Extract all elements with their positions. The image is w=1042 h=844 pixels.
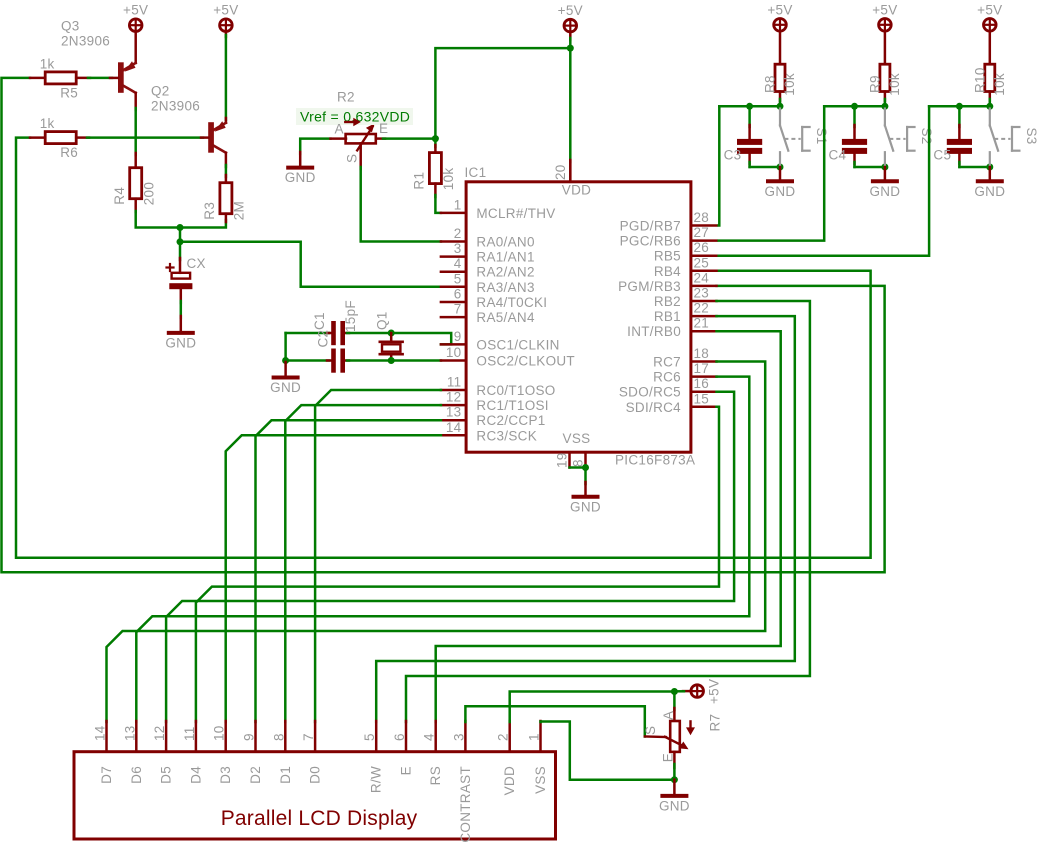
svg-text:10k: 10k (441, 168, 456, 191)
resistor R1 (429, 153, 441, 184)
LCD pin 7 D0 (314, 721, 317, 752)
wire pin22 RB1 to LCD R/W (376, 316, 795, 722)
svg-text:22: 22 (694, 301, 710, 316)
svg-text:4: 4 (454, 256, 462, 271)
capacitor C2 (331, 349, 336, 373)
svg-text:11: 11 (447, 375, 462, 390)
wire C3 bottom to switch bottom (750, 166, 780, 169)
LCD pin 8 D1 (284, 721, 287, 752)
LCD pin 14 D7 (105, 721, 108, 752)
wire net R5-to-pin24 (left edge, bottom bus, right riser) (2, 78, 885, 572)
value label Vref = 0.632VDD (296, 108, 413, 125)
svg-text:CX: CX (187, 256, 206, 271)
+5V supply symbol (774, 19, 787, 32)
wire pin11 RC0/T1OSO to LCD D0 (315, 390, 441, 722)
IC U1 PIC16F873A body (466, 182, 691, 452)
svg-text:D1: D1 (278, 766, 293, 784)
svg-text:+5V: +5V (767, 2, 792, 17)
LCD pin 6 E (405, 721, 408, 752)
svg-text:A: A (661, 711, 676, 720)
wire riser S2 to IC pin 27 (719, 106, 825, 240)
svg-text:RC3/SCK: RC3/SCK (476, 428, 537, 443)
svg-text:R1: R1 (412, 172, 427, 190)
svg-text:GND: GND (270, 380, 301, 395)
capacitor C5 (958, 106, 961, 127)
IC1 pin 20 VDD stub (569, 161, 572, 182)
trimmer R2 (346, 134, 376, 143)
svg-text:27: 27 (694, 225, 710, 240)
IC1 pin 3 RA1/AN1 (441, 255, 466, 258)
node S1 bottom junction (777, 164, 784, 171)
wire pin13 RC2/CCP1 to LCD D2 (256, 420, 441, 722)
svg-text:18: 18 (694, 346, 710, 361)
node C4 top junction (851, 103, 858, 110)
svg-text:RC7: RC7 (653, 355, 681, 370)
wire pin17 RC6 to LCD D6 (136, 377, 749, 722)
svg-text:R8: R8 (763, 75, 778, 93)
switch S1 (779, 109, 781, 126)
node C5 top junction (956, 103, 963, 110)
svg-text:25: 25 (694, 255, 710, 270)
wire R2 wiper S to IC pin 2 RA0/AN0 (361, 167, 441, 242)
svg-text:VDD: VDD (562, 183, 591, 198)
capacitor CX polarized (179, 242, 182, 260)
wire R2 A terminal to ground (300, 139, 330, 154)
svg-text:9: 9 (242, 733, 257, 741)
svg-text:+5V: +5V (977, 2, 1002, 17)
wire R7 bottom to ground junction (673, 752, 676, 768)
wire riser S1 to IC pin 28 (717, 106, 720, 225)
+5V supply symbol (879, 19, 892, 32)
svg-text:OSC1/CLKIN: OSC1/CLKIN (476, 337, 559, 352)
node S3 bottom junction (986, 164, 993, 171)
svg-text:+5V: +5V (123, 3, 148, 18)
wire net R6-to-pin25 (left vertical, bus, right riser) (16, 138, 871, 558)
wire pin15 SDI/RC4 to LCD D4 (196, 407, 719, 722)
IC1 pin 24 PGM/RB3 (691, 285, 717, 288)
svg-text:A: A (335, 122, 344, 137)
svg-text:2N3906: 2N3906 (151, 99, 200, 114)
wire pin16 SDO/RC5 to LCD D5 (166, 392, 734, 722)
svg-text:5: 5 (362, 733, 377, 741)
wire pin12 RC1/T1OSI to LCD D1 (285, 405, 441, 722)
svg-text:26: 26 (694, 240, 710, 255)
wire R4/R3 bottoms joined (134, 199, 137, 212)
svg-text:D0: D0 (308, 766, 323, 784)
svg-text:IC1: IC1 (465, 165, 487, 180)
IC1 pin 22 RB1 (691, 315, 717, 318)
svg-text:S: S (643, 726, 658, 735)
wire LCD VSS to R7 ground (541, 722, 675, 780)
wire C4 bottom to switch bottom (855, 166, 885, 169)
svg-text:+5V: +5V (213, 3, 238, 18)
IC1 pin 23 RB2 (691, 300, 717, 303)
wire +5V to Q2 emitter (225, 32, 228, 38)
svg-text:11: 11 (182, 726, 197, 741)
LCD pin 2 VDD (508, 721, 511, 752)
svg-text:10k: 10k (782, 73, 797, 96)
IC1 pin 7 RA5/AN4 (441, 316, 466, 319)
svg-text:Q2: Q2 (151, 84, 170, 99)
svg-text:E: E (660, 753, 675, 762)
IC1 pin 6 RA4/T0CKI (441, 301, 466, 304)
ground (673, 780, 676, 795)
IC1 pin 5 RA3/AN3 (441, 286, 466, 289)
svg-text:Parallel LCD Display: Parallel LCD Display (221, 807, 418, 830)
wire pin14 RC3/SCK to LCD D3 (226, 435, 441, 722)
svg-text:D5: D5 (159, 766, 174, 784)
svg-text:+5V: +5V (872, 2, 897, 17)
svg-text:RC2/CCP1: RC2/CCP1 (476, 413, 545, 428)
svg-text:+5V: +5V (558, 3, 583, 18)
svg-text:12: 12 (446, 390, 462, 405)
wire R5 to Q3 base (88, 77, 112, 80)
svg-text:13: 13 (446, 405, 462, 420)
svg-text:15: 15 (694, 391, 710, 406)
svg-text:RA2/AN2: RA2/AN2 (476, 265, 534, 280)
wire junction down (179, 228, 182, 242)
svg-text:7: 7 (454, 302, 462, 317)
svg-text:C4: C4 (829, 148, 847, 163)
trimmer R7 (673, 692, 676, 711)
wire LCD VDD to +5V (510, 692, 672, 723)
capacitor C3 (748, 106, 751, 127)
svg-text:C3: C3 (724, 148, 742, 163)
svg-text:7: 7 (301, 733, 316, 741)
wire pin23 RB2 to LCD E (406, 301, 810, 722)
wire left leg connecting C1/C2 to ground (284, 333, 287, 361)
svg-text:D7: D7 (99, 766, 114, 784)
transistor Q3 2N3906 (134, 32, 137, 63)
svg-text:200: 200 (141, 182, 156, 205)
node VDD junction (567, 45, 574, 52)
svg-text:10k: 10k (887, 73, 902, 96)
wire pin21 INT/RB0 to LCD RS (436, 331, 781, 722)
crystal Q1 (388, 330, 395, 337)
LCD pin 4 RS (434, 721, 437, 752)
ground (284, 362, 287, 377)
wire junction up to +5V corner (435, 48, 568, 139)
ground (180, 316, 183, 332)
IC1 pin 25 RB4 (691, 270, 717, 273)
svg-text:13: 13 (122, 725, 137, 741)
IC1 pin 26 RB5 (691, 254, 717, 257)
svg-text:20: 20 (553, 164, 568, 180)
capacitor C4 (853, 106, 856, 127)
svg-text:RA0/AN0: RA0/AN0 (476, 235, 534, 250)
svg-text:RB4: RB4 (654, 264, 681, 279)
node junction R4-R3 (177, 224, 184, 231)
svg-text:SDO/RC5: SDO/RC5 (619, 385, 681, 400)
svg-text:1k: 1k (40, 116, 55, 131)
svg-text:OSC2/CLKOUT: OSC2/CLKOUT (476, 354, 575, 369)
ground (299, 152, 302, 167)
svg-text:S3: S3 (1024, 128, 1039, 145)
svg-text:RC0/T1OSO: RC0/T1OSO (476, 383, 555, 398)
svg-text:21: 21 (694, 316, 710, 331)
node S3 top junction (986, 103, 993, 110)
svg-text:10k: 10k (992, 73, 1007, 96)
IC1 pin 15 SDI/RC4 (691, 406, 717, 409)
IC1 pin 27 PGC/RB6 (691, 239, 717, 242)
IC1 pin 21 INT/RB0 (691, 330, 717, 333)
wire junction row for S3 (929, 105, 990, 108)
svg-text:D4: D4 (188, 766, 203, 784)
wire CX to ground (180, 289, 183, 303)
svg-text:28: 28 (694, 210, 710, 225)
switch S3 (989, 109, 991, 126)
svg-text:D3: D3 (218, 766, 233, 784)
svg-text:3: 3 (454, 241, 462, 256)
svg-text:E: E (379, 121, 388, 136)
svg-text:6: 6 (392, 733, 407, 741)
IC1 pin 17 RC6 (691, 375, 717, 378)
svg-text:GND: GND (659, 798, 690, 813)
wire R2 E to R1 junction (383, 137, 436, 140)
svg-text:C2: C2 (316, 330, 331, 348)
svg-text:R10: R10 (972, 67, 987, 93)
IC1 pin 13 RC2/CCP1 (441, 419, 466, 422)
svg-text:17: 17 (694, 361, 710, 376)
ground (779, 167, 782, 180)
svg-text:RC6: RC6 (653, 370, 681, 385)
svg-text:RB2: RB2 (654, 294, 681, 309)
svg-text:10: 10 (212, 725, 227, 741)
LCD module Parallel LCD Display (74, 752, 556, 839)
resistor R8 10k (775, 64, 785, 91)
IC1 pin 11 RC0/T1OSO (441, 389, 466, 392)
svg-text:E: E (399, 766, 414, 775)
svg-text:R5: R5 (60, 85, 78, 100)
LCD pin 3 CONTRAST (464, 721, 467, 752)
IC1 pin 1 MCLR#/THV (441, 212, 466, 215)
node C3 top junction (746, 103, 753, 110)
svg-text:RB5: RB5 (654, 249, 681, 264)
svg-text:INT/RB0: INT/RB0 (627, 324, 681, 339)
svg-text:5: 5 (454, 271, 462, 286)
svg-text:D6: D6 (129, 766, 144, 784)
resistor R10 10k (985, 64, 995, 91)
wire VSS pins to ground (570, 466, 586, 469)
svg-text:C1: C1 (312, 312, 327, 330)
svg-text:S1: S1 (814, 128, 829, 145)
svg-text:R4: R4 (112, 187, 127, 205)
+5V for R7 (691, 685, 704, 698)
LCD pin 1 VSS (539, 721, 542, 752)
IC1 pin 19 VSS stub (568, 452, 571, 467)
svg-text:2M: 2M (232, 201, 247, 220)
IC1 pin 4 RA2/AN2 (441, 270, 466, 273)
wire junction row for S2 (824, 105, 885, 108)
node junction CX (177, 238, 184, 245)
svg-text:R9: R9 (867, 75, 882, 93)
wire Q3 collector to R4 (134, 93, 137, 110)
LCD pin 13 D6 (135, 721, 138, 752)
svg-text:PGM/RB3: PGM/RB3 (618, 279, 681, 294)
svg-text:RS: RS (428, 766, 443, 785)
svg-text:R7: R7 (708, 714, 723, 732)
svg-text:23: 23 (694, 286, 710, 301)
IC1 pin 10 OSC2/CLKOUT (441, 359, 466, 362)
IC1 pin 8 VSS stub (584, 452, 587, 467)
wire LCD CONTRAST to R7 wiper (465, 706, 644, 736)
svg-text:Q3: Q3 (61, 19, 80, 34)
LCD pin 10 D3 (224, 721, 227, 752)
svg-text:2N3906: 2N3906 (61, 34, 110, 49)
svg-text:24: 24 (694, 270, 710, 285)
IC1 pin 28 PGD/RB7 (691, 224, 717, 227)
svg-text:Q1: Q1 (374, 311, 389, 330)
LCD pin 11 D4 (195, 721, 198, 752)
svg-text:GND: GND (974, 184, 1005, 199)
wire C5 bottom to switch bottom (959, 166, 989, 169)
svg-text:R2: R2 (337, 90, 355, 105)
svg-text:2: 2 (496, 733, 511, 741)
resistor R5 (45, 72, 76, 84)
svg-text:GND: GND (869, 184, 900, 199)
wire OSC bottom row to IC pin 10 (286, 359, 329, 362)
ground (584, 482, 587, 496)
svg-text:GND: GND (285, 170, 316, 185)
svg-text:16: 16 (694, 376, 710, 391)
svg-text:1k: 1k (40, 56, 55, 71)
LCD pin 5 R/W (375, 721, 378, 752)
IC1 pin 12 RC1/T1OSI (441, 404, 466, 407)
node VSS junction (582, 464, 589, 471)
+5V supply symbol (220, 19, 233, 32)
+5V supply symbol (984, 19, 997, 32)
svg-text:14: 14 (93, 725, 108, 741)
LCD pin 9 D2 (254, 721, 257, 752)
wire node to IC pin 5 RA3/AN3 (180, 242, 441, 287)
wire riser S3 to IC pin 26 (719, 106, 929, 255)
svg-text:RC1/T1OSI: RC1/T1OSI (476, 398, 548, 413)
svg-text:19: 19 (555, 452, 570, 468)
IC1 pin 9 OSC1/CLKIN (441, 343, 466, 346)
svg-text:R6: R6 (60, 145, 78, 160)
svg-text:RB1: RB1 (654, 309, 681, 324)
svg-text:6: 6 (454, 287, 462, 302)
wire junction row for S1 (719, 105, 780, 108)
svg-text:VDD: VDD (502, 766, 517, 795)
svg-text:S2: S2 (919, 128, 934, 145)
svg-text:1: 1 (527, 733, 542, 741)
node R7 +5V junction (671, 688, 678, 695)
IC1 pin 16 SDO/RC5 (691, 390, 717, 393)
switch S2 (884, 109, 886, 126)
svg-text:R/W: R/W (369, 766, 384, 793)
wire R6 to Q2 base (87, 136, 203, 139)
svg-text:GND: GND (570, 499, 601, 514)
svg-text:GND: GND (765, 184, 796, 199)
IC1 pin 2 RA0/AN0 (441, 240, 466, 243)
node R7 ground junction (671, 776, 678, 783)
svg-text:R3: R3 (202, 202, 217, 220)
svg-text:1: 1 (454, 197, 462, 212)
svg-text:MCLR#/THV: MCLR#/THV (476, 206, 555, 221)
svg-text:PGC/RB6: PGC/RB6 (620, 234, 681, 249)
svg-text:CONTRAST: CONTRAST (458, 766, 473, 843)
svg-text:2: 2 (454, 226, 462, 241)
trimmer R2 wiper arrow (345, 121, 355, 123)
IC1 pin 14 RC3/SCK (441, 434, 466, 437)
svg-text:SDI/RC4: SDI/RC4 (626, 400, 682, 415)
IC1 pin 18 RC7 (691, 360, 717, 363)
svg-text:RA1/AN1: RA1/AN1 (476, 250, 534, 265)
svg-text:C5: C5 (933, 148, 951, 163)
svg-text:S: S (345, 154, 360, 163)
svg-text:8: 8 (271, 733, 286, 741)
resistor R3 (220, 183, 232, 214)
resistor R9 10k (880, 64, 890, 91)
wire R1 bottom to IC pin 1 MCLR (434, 184, 437, 197)
svg-text:PIC16F873A: PIC16F873A (615, 453, 695, 468)
svg-text:10: 10 (446, 345, 462, 360)
svg-text:14: 14 (446, 420, 462, 435)
+5V supply symbol (564, 19, 577, 32)
ground (989, 167, 992, 180)
svg-text:RA5/AN4: RA5/AN4 (476, 310, 535, 325)
svg-text:+5V: +5V (707, 679, 722, 704)
svg-text:15pF: 15pF (343, 300, 358, 332)
node S1 top junction (777, 103, 784, 110)
ground (884, 167, 887, 180)
transistor Q2 2N3906 (208, 122, 214, 153)
+5V supply symbol (129, 19, 142, 32)
svg-text:PGD/RB7: PGD/RB7 (620, 219, 681, 234)
wire pin18 RC7 to LCD D7 (107, 362, 766, 723)
wire Q2 collector to R3 (225, 153, 228, 167)
node S2 bottom junction (881, 164, 888, 171)
svg-text:VSS: VSS (563, 431, 591, 446)
svg-text:3: 3 (451, 733, 466, 741)
svg-text:D2: D2 (248, 766, 263, 784)
node S2 top junction (881, 103, 888, 110)
svg-text:4: 4 (422, 733, 437, 741)
node crystal bottom-left (282, 357, 289, 364)
resistor R1 10k (434, 139, 437, 147)
LCD pin 12 D5 (165, 721, 168, 752)
svg-text:RA3/AN3: RA3/AN3 (476, 280, 534, 295)
svg-text:VSS: VSS (533, 766, 548, 794)
svg-text:12: 12 (152, 725, 167, 741)
wire OSC top row to IC pin 9 (286, 332, 329, 335)
svg-text:9: 9 (454, 329, 462, 344)
wire to IC pin 20 VDD (569, 48, 572, 162)
svg-text:RA4/T0CKI: RA4/T0CKI (476, 295, 547, 310)
resistor R6 (45, 132, 76, 144)
capacitor C1 15pF (331, 321, 336, 345)
svg-text:GND: GND (165, 335, 196, 350)
node R1 top junction (432, 135, 439, 142)
resistor R4 (130, 168, 142, 199)
